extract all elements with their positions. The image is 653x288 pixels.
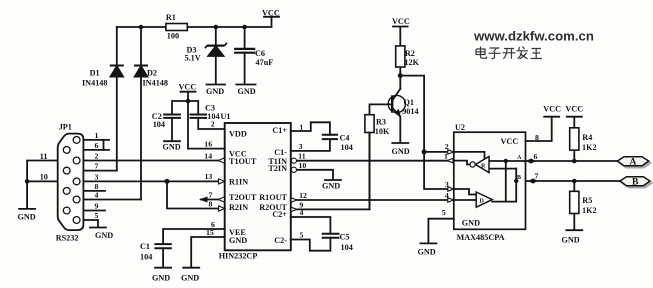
svg-text:C2+: C2+	[272, 210, 287, 219]
svg-text:www.dzkfw.com.cn: www.dzkfw.com.cn	[473, 29, 594, 44]
svg-text:104: 104	[153, 120, 165, 129]
svg-text:D1: D1	[90, 69, 100, 78]
svg-text:12: 12	[299, 191, 307, 200]
svg-text:10: 10	[299, 161, 307, 170]
svg-text:14: 14	[204, 151, 212, 160]
svg-text:IN4148: IN4148	[143, 78, 168, 87]
svg-text:VCC: VCC	[179, 83, 197, 92]
svg-text:13: 13	[205, 172, 213, 181]
svg-text:C1: C1	[140, 242, 150, 251]
svg-text:9: 9	[95, 202, 99, 211]
svg-text:VCC: VCC	[565, 105, 583, 114]
svg-text:16: 16	[204, 140, 212, 149]
svg-text:VCC: VCC	[543, 105, 561, 114]
svg-text:7: 7	[95, 162, 99, 171]
svg-text:15: 15	[206, 228, 214, 237]
svg-text:T1OUT: T1OUT	[229, 157, 257, 166]
svg-text:C6: C6	[255, 49, 265, 58]
svg-text:104: 104	[341, 243, 353, 252]
svg-text:R2: R2	[405, 49, 415, 58]
svg-text:5: 5	[95, 211, 99, 220]
svg-text:C1-: C1-	[274, 148, 287, 157]
svg-text:VCC: VCC	[392, 17, 410, 26]
svg-text:4: 4	[95, 191, 99, 200]
svg-text:HIN232CP: HIN232CP	[219, 252, 258, 261]
svg-text:B: B	[517, 175, 521, 181]
svg-text:JP1: JP1	[59, 123, 72, 132]
svg-text:GND: GND	[152, 274, 170, 283]
svg-text:7: 7	[209, 190, 213, 199]
svg-text:U2: U2	[455, 123, 465, 132]
svg-text:GND: GND	[229, 236, 247, 245]
svg-text:C4: C4	[340, 134, 350, 143]
svg-text:7: 7	[535, 171, 539, 180]
svg-text:R: R	[481, 163, 486, 169]
svg-text:1K2: 1K2	[582, 143, 597, 152]
svg-text:11: 11	[40, 152, 48, 161]
svg-text:2: 2	[211, 120, 215, 129]
svg-text:GND: GND	[462, 219, 480, 228]
svg-text:T2IN: T2IN	[268, 164, 287, 173]
svg-text:GND: GND	[181, 274, 199, 283]
svg-text:GND: GND	[163, 143, 181, 152]
svg-text:C2-: C2-	[274, 236, 287, 245]
svg-text:A: A	[630, 158, 637, 168]
svg-text:GND: GND	[392, 147, 410, 156]
svg-text:2: 2	[445, 142, 449, 151]
svg-text:3: 3	[95, 172, 99, 181]
svg-text:R4: R4	[582, 133, 592, 142]
svg-text:R1: R1	[166, 13, 176, 22]
svg-text:R1OUT: R1OUT	[259, 193, 287, 202]
svg-text:R5: R5	[582, 196, 592, 205]
svg-text:D: D	[480, 199, 485, 205]
svg-text:10K: 10K	[375, 127, 390, 136]
svg-text:1: 1	[299, 122, 303, 131]
svg-text:GND: GND	[418, 247, 436, 256]
svg-text:A: A	[517, 155, 522, 161]
svg-text:R2IN: R2IN	[229, 203, 248, 212]
svg-text:1: 1	[95, 131, 99, 140]
svg-text:U1: U1	[221, 112, 231, 121]
svg-text:3: 3	[445, 180, 449, 189]
svg-text:C1+: C1+	[272, 126, 287, 135]
svg-text:4: 4	[300, 208, 304, 217]
svg-text:GND: GND	[18, 213, 36, 222]
svg-text:12K: 12K	[404, 58, 419, 67]
svg-text:Q1: Q1	[404, 98, 414, 107]
svg-text:VDD: VDD	[229, 129, 247, 138]
svg-text:104: 104	[341, 143, 353, 152]
svg-text:T2OUT: T2OUT	[229, 193, 257, 202]
svg-text:VCC: VCC	[262, 9, 280, 18]
svg-text:5.1V: 5.1V	[185, 53, 201, 62]
svg-text:8: 8	[209, 199, 213, 208]
svg-text:R3: R3	[376, 117, 386, 126]
svg-text:GND: GND	[238, 87, 256, 96]
svg-text:5: 5	[442, 208, 446, 217]
svg-text:5: 5	[300, 230, 304, 239]
svg-text:IN4148: IN4148	[82, 78, 107, 87]
svg-text:9014: 9014	[402, 107, 418, 116]
svg-text:1K2: 1K2	[582, 206, 597, 215]
svg-text:104: 104	[140, 253, 152, 262]
svg-text:C5: C5	[340, 233, 350, 242]
svg-text:GND: GND	[95, 231, 113, 240]
svg-text:B: B	[632, 178, 639, 188]
svg-text:2: 2	[95, 152, 99, 161]
svg-text:R1IN: R1IN	[229, 177, 248, 186]
svg-text:3: 3	[299, 142, 303, 151]
svg-text:VCC: VCC	[501, 137, 519, 146]
svg-text:10: 10	[40, 172, 48, 181]
svg-text:MAX485CPA: MAX485CPA	[457, 233, 505, 242]
svg-text:GND: GND	[206, 87, 224, 96]
svg-text:8: 8	[535, 133, 539, 142]
svg-text:6: 6	[534, 152, 538, 161]
svg-text:4: 4	[445, 191, 449, 200]
svg-text:6: 6	[95, 141, 99, 150]
svg-text:1: 1	[444, 151, 448, 160]
svg-text:47uF: 47uF	[256, 58, 274, 67]
svg-text:RS232: RS232	[56, 234, 79, 243]
svg-text:D2: D2	[147, 69, 157, 78]
svg-text:11: 11	[298, 152, 305, 161]
svg-text:GND: GND	[562, 236, 580, 245]
svg-text:GND: GND	[322, 181, 340, 190]
svg-text:100: 100	[167, 32, 179, 41]
